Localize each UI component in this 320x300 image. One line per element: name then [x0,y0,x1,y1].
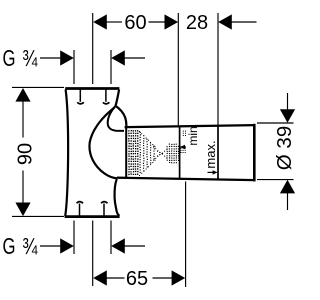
dimension 90 line upper [22,101,24,138]
thread tick top left [79,90,81,102]
thread tick bottom right [103,204,105,216]
valve body top edge [65,87,119,90]
extension line centerline top [92,13,94,84]
cartridge housing top edge [125,125,255,127]
cartridge housing left edge [125,126,127,177]
cartridge stipple spindle waist [153,147,167,161]
cartridge stipple disc stack [139,131,156,176]
dimension D39 tail bottom [287,193,289,210]
cartridge stipple spindle tip [181,131,187,153]
cartridge housing right edge [253,124,256,182]
valve body left edge [65,90,68,217]
G3/4 top leader right [124,57,145,59]
valve body right edge upper [116,90,120,107]
svg-text:G: G [3,45,16,71]
dimension 65 line left [107,277,125,279]
max arrow tail [208,171,214,173]
arrow 65 left [93,270,107,285]
extension line min top [177,13,179,125]
cartridge stipple ribbed knob [167,144,180,164]
extension line D39 bottom [257,179,294,181]
G3/4 bottom leader left [40,245,61,247]
svg-text:¾: ¾ [22,45,38,71]
valve body right edge lower [115,179,120,216]
min arrow tail [180,146,186,148]
extension line D39 top [257,122,294,124]
boss teardrop outer curve [116,106,127,126]
extension line G3/4 top left [73,50,75,84]
arrow G3/4 top right [111,50,125,65]
arrow D39 down [280,109,295,123]
svg-text:90: 90 [15,143,37,165]
thread tick bottom left [79,204,81,216]
extension line G3/4 bottom right [110,221,112,255]
dimension 60 line left [107,21,123,23]
dimension 60 line right [149,21,166,23]
svg-text:G: G [3,233,16,259]
arrow 90 up [15,88,30,102]
cartridge housing bottom edge [117,178,255,180]
svg-text:28: 28 [186,12,208,34]
arrow 65 right [172,270,186,285]
boss teardrop inner curve [108,106,124,131]
dimension 28 tail right [232,21,257,23]
arrow 90 down [15,203,30,217]
svg-text:max.: max. [203,140,218,168]
arrow G3/4 bottom right [111,238,125,253]
dimension 90 line lower [22,171,24,204]
svg-text:60: 60 [124,12,146,34]
cartridge stipple dense block [128,130,139,175]
G3/4 bottom leader right [124,245,145,247]
extension line 90 top [12,86,64,88]
arrow 60 left [93,14,107,29]
min pointer arrowhead [180,145,185,149]
max line [217,126,219,180]
G3/4 top leader left [40,57,61,59]
dimension 65 line right [153,277,173,279]
dimension D39 tail top [287,93,289,111]
extension line G3/4 top right [110,50,112,84]
arrow G3/4 bottom left [60,238,74,253]
svg-text:¾: ¾ [22,233,38,259]
extension line spindle end bottom [185,182,187,288]
svg-text:min: min [186,126,200,145]
arrow 60 right [165,14,179,29]
valve body bottom edge [65,215,120,218]
extension line max top [217,13,219,125]
svg-text:Ø 39: Ø 39 [273,126,296,170]
thread tick top right [105,90,107,102]
arrow D39 up [280,180,295,194]
min line [179,126,181,179]
extension line 90 bottom [12,215,64,217]
cone left silhouette [89,108,117,179]
extension line G3/4 bottom left [73,221,75,255]
max pointer arrowhead [213,170,218,174]
svg-text:65: 65 [126,268,148,290]
arrow 28 right outside [218,14,232,29]
arrow G3/4 top left [60,50,74,65]
extension line centerline bottom [92,221,94,287]
